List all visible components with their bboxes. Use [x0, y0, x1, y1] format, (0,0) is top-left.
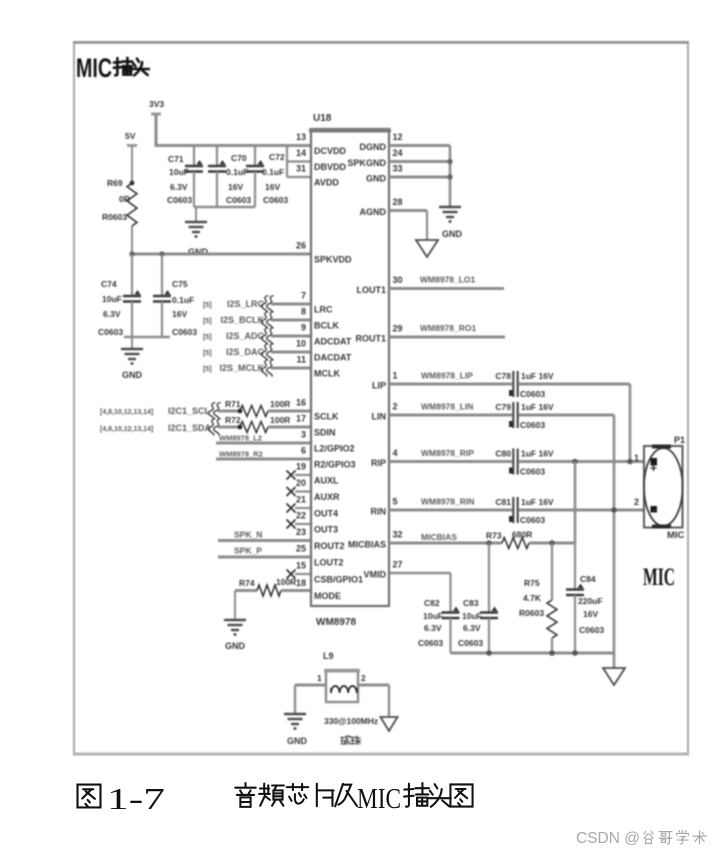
svg-text:VMID: VMID [364, 570, 387, 580]
svg-text:ROUT1: ROUT1 [355, 334, 386, 344]
svg-text:1: 1 [634, 453, 639, 463]
svg-text:ADCDAT: ADCDAT [314, 337, 352, 347]
svg-text:14: 14 [296, 148, 306, 158]
svg-text:6: 6 [301, 446, 306, 456]
svg-text:17: 17 [296, 414, 306, 424]
svg-text:AUXR: AUXR [314, 492, 340, 502]
svg-text:I2S_ADC: I2S_ADC [226, 331, 265, 341]
svg-text:L9: L9 [323, 651, 334, 661]
svg-text:DCVDD: DCVDD [314, 146, 347, 156]
svg-text:10uF: 10uF [102, 294, 122, 304]
svg-text:16V: 16V [265, 182, 280, 192]
svg-text:R2/GPIO3: R2/GPIO3 [314, 460, 356, 470]
wire L9 pin 2 to triangle ground [358, 683, 389, 686]
svg-text:C80: C80 [495, 449, 511, 459]
svg-text:5V: 5V [125, 131, 136, 141]
svg-text:R72: R72 [225, 415, 241, 425]
svg-text:100R: 100R [276, 577, 296, 587]
wire decoupling bus [194, 206, 255, 208]
svg-text:1uF 16V: 1uF 16V [521, 402, 554, 412]
svg-text:6.3V: 6.3V [424, 623, 442, 633]
svg-text:BCLK: BCLK [314, 321, 339, 331]
svg-text:WM8978_RIN: WM8978_RIN [421, 497, 474, 507]
svg-text:SPK_N: SPK_N [234, 530, 262, 540]
ground triangle under L9 pin 2 [381, 717, 398, 731]
svg-text:1uF 16V: 1uF 16V [521, 497, 554, 507]
wire L9 pin 1 to ground [295, 683, 326, 686]
svg-text:27: 27 [393, 560, 403, 570]
wire DGND pin 12 [389, 144, 450, 147]
svg-text:22: 22 [296, 511, 306, 521]
svg-text:[5]: [5] [203, 302, 212, 309]
svg-text:R0603: R0603 [102, 212, 127, 222]
capacitor C70 [216, 146, 218, 167]
svg-text:C0603: C0603 [98, 327, 123, 337]
svg-text:CSDN @: CSDN @ [576, 830, 640, 847]
svg-text:R75: R75 [524, 578, 540, 588]
svg-text:16: 16 [296, 398, 306, 408]
svg-text:20: 20 [296, 478, 306, 488]
svg-text:RIN: RIN [371, 507, 387, 517]
wire analog ground rail [451, 652, 615, 655]
wire AGND pin 28 [389, 209, 427, 212]
svg-text:21: 21 [296, 495, 306, 505]
no-connect X pin 22 OUT3 [295, 523, 311, 525]
svg-text:[5]: [5] [203, 366, 212, 373]
ground triangle AGND [416, 240, 438, 257]
svg-text:0.1uF: 0.1uF [226, 167, 248, 177]
no-connect X pin 20 AUXR [295, 490, 311, 492]
ground under C74 bus [131, 337, 133, 349]
svg-text:1-7: 1-7 [107, 781, 165, 816]
svg-text:OUT4: OUT4 [314, 509, 338, 519]
resistor R74 100R (pin 18 MODE) [235, 589, 257, 592]
svg-text:0.1uF: 0.1uF [262, 167, 284, 177]
svg-text:I2S_MCLK: I2S_MCLK [219, 363, 264, 373]
svg-text:[5]: [5] [203, 318, 212, 325]
no-connect X pin 19 AUXL [295, 474, 311, 476]
svg-text:SPK_P: SPK_P [234, 546, 262, 556]
svg-text:OUT3: OUT3 [314, 525, 338, 535]
svg-text:MIC: MIC [76, 53, 112, 83]
svg-text:I2S_DAC: I2S_DAC [226, 347, 265, 357]
svg-text:MCLK: MCLK [314, 369, 340, 379]
svg-text:3: 3 [301, 430, 306, 440]
svg-text:C0603: C0603 [520, 420, 545, 430]
no-connect X pin 21 OUT4 [295, 507, 311, 509]
wire 3V3 to rail [154, 114, 157, 147]
capacitor C83 [488, 543, 490, 613]
svg-text:1uF 16V: 1uF 16V [521, 371, 554, 381]
svg-text:C81: C81 [495, 497, 511, 507]
svg-text:330@100MHz: 330@100MHz [324, 716, 378, 726]
resistor R69 [127, 183, 137, 226]
svg-text:30: 30 [393, 275, 403, 285]
svg-text:I2S_BCLK: I2S_BCLK [220, 315, 264, 325]
resistor R72 100R [240, 422, 268, 433]
wire SPKVDD rail [132, 252, 311, 255]
resistor R75 4.7K [551, 543, 553, 600]
wire R72 to pin 17 [268, 425, 311, 428]
svg-text:16V: 16V [172, 309, 187, 319]
capacitor C71 [193, 146, 195, 167]
svg-text:WM8978: WM8978 [316, 617, 356, 628]
svg-text:GND: GND [366, 174, 387, 184]
svg-text:MIC: MIC [667, 530, 685, 541]
svg-text:SPKGND: SPKGND [347, 158, 386, 168]
wire 3V3 rail to pin 13 [156, 144, 311, 147]
svg-text:C0603: C0603 [263, 195, 288, 205]
svg-text:C0603: C0603 [520, 467, 545, 477]
svg-text:C0603: C0603 [226, 195, 251, 205]
svg-text:R71: R71 [225, 399, 241, 409]
svg-text:C0603: C0603 [520, 389, 545, 399]
capacitor C82 [449, 573, 451, 613]
svg-text:CSB/GPIO1: CSB/GPIO1 [314, 575, 363, 585]
svg-text:C0603: C0603 [458, 638, 483, 648]
capacitor C72 [254, 146, 256, 167]
wire I2C1_SDA to R72 [218, 425, 240, 428]
svg-text:2: 2 [393, 402, 398, 412]
wire GND pin 33 [389, 175, 450, 178]
IC U18 WM8978 body [311, 129, 389, 606]
svg-text:6.3V: 6.3V [463, 623, 481, 633]
svg-text:[5]: [5] [203, 334, 212, 341]
wire RIN to MIC pin 2 [519, 508, 646, 511]
svg-text:7: 7 [301, 291, 306, 301]
label 磁珠 [340, 736, 350, 745]
svg-text:18: 18 [296, 578, 306, 588]
svg-text:16V: 16V [228, 182, 243, 192]
svg-text:GND: GND [225, 641, 246, 651]
svg-text:9: 9 [301, 323, 306, 333]
svg-text:1uF 16V: 1uF 16V [521, 449, 554, 459]
svg-text:GND: GND [287, 736, 308, 746]
svg-text:23: 23 [296, 527, 306, 537]
svg-text:C71: C71 [168, 154, 184, 164]
svg-text:[5]: [5] [203, 350, 212, 357]
svg-text:C84: C84 [580, 574, 596, 584]
svg-text:3V3: 3V3 [149, 99, 164, 109]
ground under R74 [224, 619, 246, 621]
no-connect X pin 15 CSB/GPIO1 [295, 573, 311, 575]
svg-text:MIC: MIC [643, 564, 675, 591]
ground under L9 pin 1 [284, 713, 306, 715]
wire C74 C75 bus [124, 336, 170, 338]
svg-text:R73: R73 [486, 531, 502, 541]
svg-text:6.3V: 6.3V [170, 182, 188, 192]
svg-text:LIN: LIN [372, 412, 387, 422]
svg-text:10uF: 10uF [462, 611, 482, 621]
svg-text:13: 13 [296, 132, 306, 142]
svg-text:C0603: C0603 [167, 195, 192, 205]
svg-text:ROUT2: ROUT2 [314, 541, 345, 551]
resistor R71 100R [240, 406, 268, 417]
wire jog to pin 31 [287, 176, 311, 178]
svg-text:WM8978_RIP: WM8978_RIP [421, 448, 474, 458]
svg-text:DGND: DGND [360, 142, 387, 152]
svg-text:8: 8 [301, 307, 306, 317]
wire VMID pin 27 [389, 572, 451, 574]
svg-text:MIC: MIC [357, 784, 401, 815]
svg-text:R74: R74 [239, 578, 255, 588]
wire SPKGND pin 24 [389, 160, 450, 163]
wire R73 to RIP node [529, 541, 575, 544]
svg-text:680R: 680R [512, 530, 532, 540]
svg-text:24: 24 [393, 148, 403, 158]
svg-text:MODE: MODE [314, 591, 341, 601]
svg-text:WM8978_L2: WM8978_L2 [219, 434, 262, 443]
wire ground bus vertical [449, 146, 452, 208]
svg-text:0R: 0R [119, 194, 130, 204]
svg-text:5: 5 [393, 497, 398, 507]
capacitor C75 [161, 255, 163, 296]
svg-text:DBVDD: DBVDD [314, 162, 347, 172]
svg-text:19: 19 [296, 462, 306, 472]
svg-text:10uF: 10uF [169, 167, 189, 177]
svg-text:MICBIAS: MICBIAS [348, 540, 386, 550]
svg-text:LIP: LIP [372, 381, 386, 391]
wire jog to pin 14 [286, 146, 288, 178]
svg-text:2: 2 [634, 497, 639, 507]
caption 图1-7 音频芯片及MIC插头图 [78, 785, 101, 808]
svg-text:C82: C82 [424, 598, 440, 608]
ground triangle bottom right [603, 668, 625, 685]
svg-text:33: 33 [393, 164, 403, 174]
svg-text:C70: C70 [231, 153, 247, 163]
svg-text:32: 32 [393, 530, 403, 540]
svg-text:C83: C83 [463, 598, 479, 608]
svg-text:6.3V: 6.3V [103, 309, 121, 319]
svg-text:100R: 100R [270, 399, 290, 409]
wire rail to triangle ground [613, 653, 616, 668]
svg-text:I2S_LRC: I2S_LRC [227, 299, 265, 309]
svg-text:I2C1_SCL: I2C1_SCL [168, 406, 211, 416]
svg-text:I2C1_SDA: I2C1_SDA [168, 423, 212, 433]
svg-text:AVDD: AVDD [314, 178, 339, 188]
wire 5V to R69 [131, 146, 133, 184]
svg-text:C72: C72 [269, 152, 285, 162]
ground GND right of IC [439, 206, 461, 208]
svg-text:MICBIAS: MICBIAS [421, 532, 457, 542]
svg-text:[4,8,10,12,13,14]: [4,8,10,12,13,14] [100, 426, 153, 433]
wire R74 to ground [234, 591, 236, 621]
svg-text:15: 15 [296, 561, 306, 571]
svg-text:U18: U18 [313, 113, 332, 124]
svg-text:26: 26 [296, 241, 306, 251]
wire LIP to MIC pin 1 [519, 382, 630, 385]
svg-text:C0603: C0603 [520, 515, 545, 525]
svg-text:[4,8,10,12,13,14]: [4,8,10,12,13,14] [100, 409, 153, 416]
svg-text:WM8978_LO1: WM8978_LO1 [420, 275, 476, 285]
svg-text:GND: GND [122, 370, 143, 380]
svg-text:10: 10 [296, 339, 306, 349]
wire RIP to MIC pin 1 [519, 460, 646, 463]
svg-text:AGND: AGND [360, 207, 387, 217]
svg-text:11: 11 [296, 355, 306, 365]
svg-text:12: 12 [393, 132, 403, 142]
svg-text:100R: 100R [270, 415, 290, 425]
svg-text:4.7K: 4.7K [523, 593, 542, 603]
capacitor C84 [574, 543, 576, 590]
svg-text:WM8978_RO1: WM8978_RO1 [420, 323, 476, 333]
svg-text:LOUT1: LOUT1 [356, 285, 386, 295]
svg-text:C75: C75 [172, 279, 188, 289]
svg-text:29: 29 [393, 324, 403, 334]
svg-text:4: 4 [393, 448, 398, 458]
wire R69 to SPKVDD rail [131, 226, 133, 255]
svg-text:28: 28 [393, 197, 403, 207]
svg-text:AUXL: AUXL [314, 476, 339, 486]
svg-text:2: 2 [361, 673, 366, 683]
svg-text:16V: 16V [583, 609, 598, 619]
wire LIN down to MIC pin 2 [519, 413, 614, 416]
svg-text:L2/GPIO2: L2/GPIO2 [314, 444, 355, 454]
svg-text:WM8978_R2: WM8978_R2 [219, 450, 263, 459]
svg-text:1: 1 [317, 673, 322, 683]
wire I2C1_SCL to R71 [218, 409, 240, 412]
svg-text:LOUT2: LOUT2 [314, 558, 344, 568]
svg-text:C0603: C0603 [172, 327, 197, 337]
schematic frame [74, 42, 688, 754]
capacitor C74 [131, 255, 133, 296]
svg-text:C74: C74 [101, 279, 117, 289]
svg-text:31: 31 [296, 164, 306, 174]
svg-text:R0603: R0603 [519, 608, 544, 618]
svg-text:P1: P1 [674, 435, 685, 445]
svg-text:SCLK: SCLK [314, 412, 339, 422]
resistor R73 680R [502, 538, 529, 549]
ground under decoupling bus [195, 207, 197, 222]
svg-text:R69: R69 [107, 178, 123, 188]
svg-text:10uF: 10uF [423, 611, 443, 621]
svg-text:RIP: RIP [371, 458, 386, 468]
wire R71 to pin 16 [268, 409, 311, 412]
svg-text:SDIN: SDIN [314, 428, 336, 438]
svg-text:SPKVDD: SPKVDD [314, 255, 352, 265]
svg-text:WM8978_LIN: WM8978_LIN [421, 402, 473, 412]
svg-text:0.1uF: 0.1uF [172, 295, 194, 305]
svg-text:C78: C78 [495, 371, 511, 381]
svg-text:DACDAT: DACDAT [314, 353, 352, 363]
svg-text:C79: C79 [495, 402, 511, 412]
svg-text:WM8978_LIP: WM8978_LIP [421, 371, 473, 381]
svg-text:1: 1 [393, 371, 398, 381]
svg-text:C0603: C0603 [579, 625, 604, 635]
svg-text:220uF: 220uF [578, 596, 603, 606]
svg-text:C0603: C0603 [418, 638, 443, 648]
svg-text:GND: GND [442, 229, 463, 239]
svg-text:LRC: LRC [314, 305, 333, 315]
svg-text:25: 25 [296, 544, 306, 554]
